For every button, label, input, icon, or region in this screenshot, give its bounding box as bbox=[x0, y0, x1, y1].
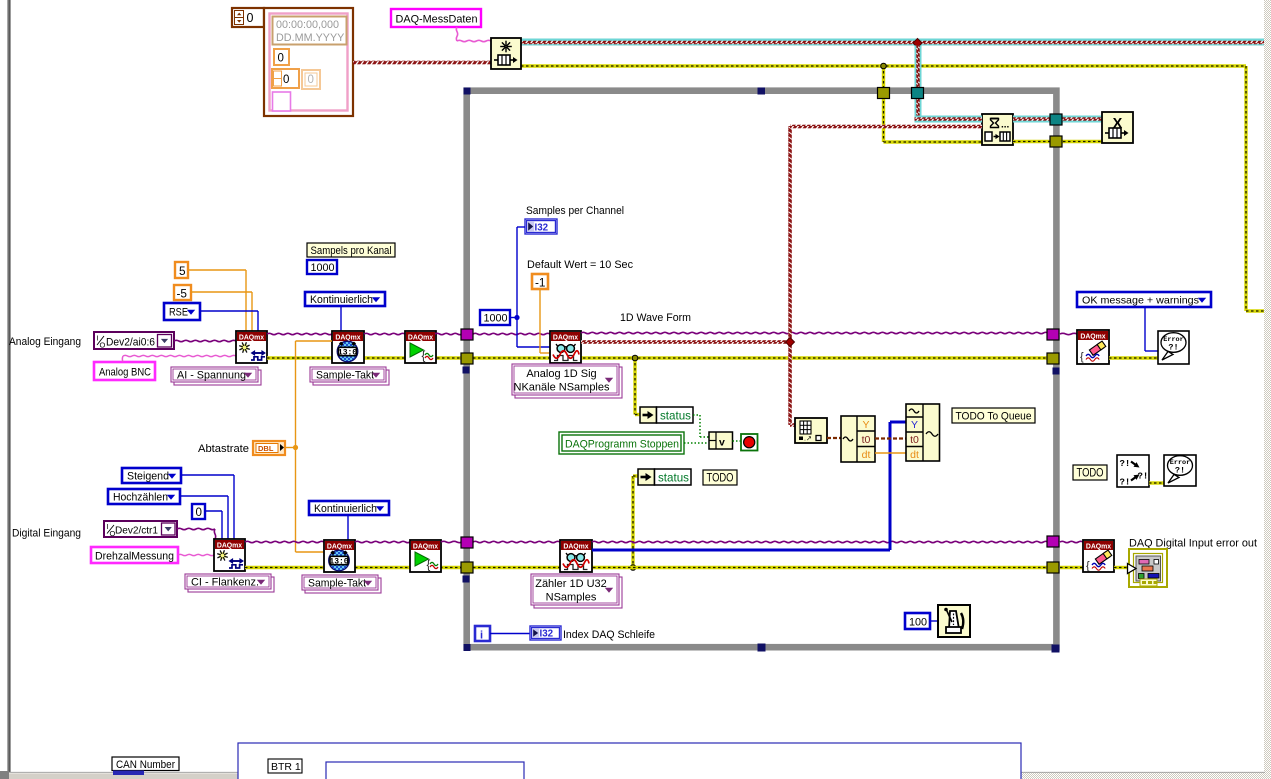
svg-text:Sample-Takt: Sample-Takt bbox=[316, 370, 374, 382]
svg-text:?!: ?! bbox=[1120, 459, 1131, 469]
timestamp constant 00:00:00,000 bbox=[273, 17, 347, 45]
cluster wire drop at x918 bbox=[916, 45, 919, 119]
enum Steigend bbox=[122, 468, 181, 483]
t0 wire bbox=[875, 437, 906, 439]
get waveform components bbox=[841, 416, 875, 462]
bool wire or to stop bbox=[733, 440, 742, 442]
svg-text:Sampels pro Kanal: Sampels pro Kanal bbox=[311, 245, 392, 257]
task wire start to tunnel (analog) bbox=[435, 333, 462, 334]
svg-text:DAQmx: DAQmx bbox=[335, 335, 360, 342]
daqmx read (analog) bbox=[550, 331, 581, 363]
index array function bbox=[795, 418, 827, 443]
io constant Dev2/ctr1 bbox=[104, 521, 177, 538]
enum Analog 1D Sig NKanale NSamples bbox=[512, 364, 622, 398]
left window pane border bbox=[7, 0, 11, 772]
wire i to I32 bbox=[490, 633, 530, 635]
build waveform bbox=[906, 404, 940, 461]
error junction dot digital bbox=[630, 565, 636, 571]
label Index DAQ Schleife bbox=[563, 629, 655, 641]
svg-text:OK message + warnings: OK message + warnings bbox=[1082, 295, 1199, 307]
svg-text:DBL: DBL bbox=[258, 444, 274, 453]
svg-text:i: i bbox=[480, 630, 483, 642]
label Default Wert = 10 Sec bbox=[527, 259, 633, 271]
rate wire to analog timing bbox=[285, 341, 332, 448]
tunnel queue top bbox=[912, 88, 924, 99]
svg-text:CI - Flankenz.: CI - Flankenz. bbox=[191, 577, 259, 589]
vertical scrollbar track bbox=[1264, 0, 1271, 779]
indicator input arrow bbox=[1128, 564, 1137, 574]
error wire obtain queue to right edge bbox=[521, 64, 1246, 67]
unbundle status 1 bbox=[640, 407, 693, 423]
svg-text:DAQmx: DAQmx bbox=[563, 544, 588, 551]
svg-text:dt: dt bbox=[862, 449, 871, 461]
simple error handler (digital) bbox=[1164, 455, 1196, 486]
svg-text:status: status bbox=[658, 472, 689, 485]
obtain queue icon U1 bbox=[491, 38, 521, 69]
error wire merge to dialog bbox=[1149, 481, 1164, 484]
rate wire to digital timing bbox=[296, 448, 325, 553]
svg-text:t0: t0 bbox=[862, 434, 871, 446]
svg-text:00:00:00,000: 00:00:00,000 bbox=[276, 19, 339, 31]
iteration terminal i bbox=[475, 626, 490, 642]
task wire Dev2ctr1 to create bbox=[177, 528, 216, 539]
wire RSE to create bbox=[200, 311, 258, 331]
error branch to status2 (digital) bbox=[633, 476, 638, 567]
junction dot blue bbox=[514, 315, 519, 320]
svg-text:Dev2/ai0:6: Dev2/ai0:6 bbox=[106, 337, 155, 349]
svg-text:0: 0 bbox=[308, 74, 314, 86]
io constant Dev2/ai0:6 bbox=[94, 332, 174, 350]
queue+cluster wire into enqueue (cyan) bbox=[915, 116, 983, 123]
daqmx start (analog) bbox=[405, 331, 436, 363]
svg-text:Analog BNC: Analog BNC bbox=[99, 367, 151, 379]
svg-text:NSamples: NSamples bbox=[546, 592, 597, 604]
svg-text:O: O bbox=[100, 341, 106, 350]
svg-text:Analog 1D Sig: Analog 1D Sig bbox=[526, 368, 596, 380]
svg-text:DAQmx: DAQmx bbox=[327, 544, 352, 551]
handle bottom mid bbox=[758, 644, 766, 652]
wire 0 to create bbox=[205, 511, 222, 539]
svg-text:Kontinuierlich: Kontinuierlich bbox=[310, 294, 373, 306]
svg-text:{: { bbox=[427, 560, 431, 572]
svg-text:0: 0 bbox=[278, 53, 284, 65]
daqmx timing (analog) bbox=[332, 331, 364, 363]
svg-text:?!: ?! bbox=[1120, 478, 1131, 488]
label TODO (loop) bbox=[703, 470, 737, 485]
waveform array wire junction down to index array bbox=[788, 342, 795, 427]
enqueue element icon bbox=[982, 114, 1013, 145]
dbl constant Abtastrate bbox=[253, 441, 285, 455]
svg-text:DAQmx: DAQmx bbox=[413, 544, 438, 551]
label Analog Eingang bbox=[9, 336, 81, 348]
svg-text:Y: Y bbox=[911, 419, 918, 431]
task wire tunnel to clear (digital) bbox=[1060, 541, 1083, 542]
task wire create to timing (digital) bbox=[245, 541, 324, 542]
svg-text:0: 0 bbox=[283, 74, 289, 86]
numeric constant 5 bbox=[175, 262, 188, 278]
numeric 0 in cluster (orange) bbox=[274, 49, 289, 65]
svg-text:TODO To Queue: TODO To Queue bbox=[956, 411, 1032, 423]
numeric constant 1000 (loop) bbox=[480, 310, 510, 325]
svg-text:Zähler 1D U32: Zähler 1D U32 bbox=[535, 578, 607, 590]
svg-text:Sample-Takt: Sample-Takt bbox=[308, 578, 366, 590]
daqmx timing (digital) bbox=[324, 540, 355, 572]
error wire enqueue to release bbox=[1013, 140, 1102, 143]
CAN Number terminal stub bbox=[113, 771, 144, 776]
svg-text:DAQmx: DAQmx bbox=[1080, 334, 1105, 341]
svg-text:1000: 1000 bbox=[311, 262, 335, 274]
svg-text:{: { bbox=[1086, 560, 1090, 572]
svg-text:DAQmx: DAQmx bbox=[1086, 544, 1111, 551]
cluster wire constant to obtain queue bbox=[353, 61, 492, 65]
wire -1 to read timeout bbox=[540, 289, 550, 353]
numeric constant 100 bbox=[905, 613, 930, 629]
daqmx create virtual channel (analog) bbox=[236, 331, 267, 363]
label Analog BNC bbox=[94, 362, 155, 380]
enum Sample-Takt (digital) bbox=[302, 575, 381, 593]
svg-text:?!: ?! bbox=[1138, 472, 1149, 482]
dt wire bbox=[875, 452, 906, 454]
CAN frame inner box bbox=[326, 762, 524, 779]
task wire timing to start (digital) bbox=[355, 541, 410, 542]
svg-text:Hochzählen: Hochzählen bbox=[113, 492, 168, 504]
numeric constant -5 bbox=[174, 285, 191, 301]
handle digital left bbox=[463, 576, 470, 583]
waveform wire index array to get components bbox=[827, 437, 841, 439]
wire 1000 to junction bbox=[510, 317, 517, 319]
svg-text:Analog Eingang: Analog Eingang bbox=[9, 336, 81, 348]
svg-text:Index DAQ Schleife: Index DAQ Schleife bbox=[563, 629, 655, 641]
bool wire stoppen to or bbox=[684, 442, 709, 444]
task wire read to right tunnel (analog) bbox=[581, 332, 1048, 333]
daqmx create virtual channel (digital) bbox=[214, 539, 245, 571]
tunnel error analog left bbox=[461, 353, 473, 364]
svg-text:RSE: RSE bbox=[169, 307, 188, 319]
numeric 0 grayed in cluster bbox=[302, 70, 320, 89]
label DAQ-MessDaten bbox=[391, 9, 481, 27]
svg-text:dt: dt bbox=[910, 449, 919, 461]
svg-text:DD.MM.YYYY: DD.MM.YYYY bbox=[276, 32, 344, 44]
error wire clear to indicator bbox=[1114, 566, 1128, 569]
svg-text:DAQmx: DAQmx bbox=[408, 335, 433, 342]
string wire Analog BNC to create bbox=[122, 355, 236, 362]
tunnel queue dequeue right bbox=[1050, 114, 1062, 125]
svg-text:NKanäle NSamples: NKanäle NSamples bbox=[514, 382, 610, 394]
enum CI - Flankenz. bbox=[185, 574, 274, 592]
task wire start to tunnel (digital) bbox=[441, 541, 462, 542]
handle left mid bbox=[463, 367, 470, 374]
terminal I32 samples per channel bbox=[525, 219, 557, 234]
waveform array wire to enqueue element bbox=[790, 125, 982, 129]
release queue icon bbox=[1102, 112, 1133, 143]
task wire tunnel to read (analog) bbox=[473, 333, 550, 334]
handle bottom left bbox=[464, 644, 471, 651]
svg-text:5: 5 bbox=[179, 264, 186, 278]
label Digital Eingang bbox=[12, 528, 81, 540]
tunnel error top bbox=[878, 88, 890, 99]
loop stop terminal bbox=[741, 434, 758, 451]
svg-text:...: ... bbox=[1001, 120, 1010, 131]
label Abtastrate bbox=[198, 443, 249, 455]
task wire Dev2 to create bbox=[174, 340, 236, 341]
svg-text:BTR 1: BTR 1 bbox=[271, 761, 301, 773]
svg-text:0: 0 bbox=[247, 11, 254, 25]
label Sampels pro Kanal bbox=[307, 243, 395, 257]
enum Kontinuierlich (digital) bbox=[309, 501, 389, 515]
wire Steigend to create bbox=[181, 475, 234, 539]
queue+cluster wire drop at x918 (cyan) bbox=[915, 46, 922, 120]
svg-text:?!: ?! bbox=[1168, 343, 1178, 353]
label TODO (right) bbox=[1073, 465, 1107, 480]
junction diamond at x790 bbox=[786, 338, 795, 347]
svg-text:I: I bbox=[97, 334, 99, 343]
svg-text:-5: -5 bbox=[177, 287, 188, 301]
merge errors function bbox=[1117, 455, 1149, 488]
task wire tunnel to read (digital) bbox=[473, 541, 560, 542]
svg-text:Abtastrate: Abtastrate bbox=[198, 443, 249, 455]
error wire analog row bbox=[267, 356, 461, 359]
svg-text:Steigend: Steigend bbox=[127, 471, 169, 483]
enum Sample-Takt (analog) bbox=[310, 367, 389, 385]
handle top mid bbox=[758, 88, 766, 95]
wire Kontinuierlich to timing (analog) bbox=[340, 306, 342, 331]
string wire DAQ-MessDaten to obtain queue bbox=[456, 27, 491, 42]
error wire junction dot top bbox=[881, 63, 887, 69]
svg-text:13:0: 13:0 bbox=[338, 349, 357, 358]
svg-text:1D Wave Form: 1D Wave Form bbox=[620, 312, 691, 324]
svg-text:0: 0 bbox=[196, 506, 202, 519]
task wire tunnel to clear (analog) bbox=[1060, 333, 1077, 334]
label Samples per Channel bbox=[526, 205, 624, 217]
svg-text:CAN Number: CAN Number bbox=[116, 759, 175, 771]
svg-text:DAQ-MessDaten: DAQ-MessDaten bbox=[396, 14, 478, 26]
waveform array wire read to junction bbox=[581, 340, 790, 344]
label CAN Number bbox=[112, 757, 179, 771]
label BTR 1 bbox=[268, 759, 302, 773]
waveform array wire junction up bbox=[788, 126, 792, 342]
wire 5 to create bbox=[188, 270, 246, 331]
svg-text:DAQmx: DAQmx bbox=[217, 543, 242, 550]
wire -5 to create bbox=[191, 292, 252, 331]
cluster wire top (candy stripe) bbox=[520, 41, 1264, 44]
svg-text:-1: -1 bbox=[535, 276, 546, 290]
svg-text:Y: Y bbox=[862, 419, 869, 431]
enum Hochzaehlen bbox=[108, 489, 180, 504]
svg-text:Samples per Channel: Samples per Channel bbox=[526, 205, 624, 217]
svg-text:Dev2/ctr1: Dev2/ctr1 bbox=[115, 525, 158, 537]
wire OK message to error dialog bbox=[1145, 307, 1158, 351]
tunnel task digital right bbox=[1047, 536, 1059, 547]
svg-text:Default Wert = 10 Sec: Default Wert = 10 Sec bbox=[527, 259, 633, 271]
wire Kontinuierlich to timing (digital) bbox=[347, 515, 349, 540]
error wire clear to dialog (analog) bbox=[1109, 356, 1158, 359]
error wire right-side drop bbox=[1246, 66, 1264, 311]
u32 array wire read to build waveform bbox=[592, 422, 906, 550]
svg-text:DAQmx: DAQmx bbox=[553, 335, 578, 342]
cluster wire into enqueue bbox=[915, 117, 983, 120]
task wire timing to start (analog) bbox=[364, 333, 405, 334]
svg-text:DAQmx: DAQmx bbox=[239, 335, 264, 342]
daqmx clear (analog) bbox=[1077, 330, 1109, 364]
svg-text:13:0: 13:0 bbox=[329, 558, 348, 567]
cluster wire enqueue to release bbox=[1013, 117, 1102, 120]
CAN frame outer box bbox=[238, 743, 1021, 779]
svg-text:v: v bbox=[719, 437, 725, 449]
cluster constant DAQ-MessDaten frame bbox=[264, 8, 353, 116]
numeric constant 0 (digital) bbox=[192, 504, 205, 519]
svg-text:DAQ Digital Input error out: DAQ Digital Input error out bbox=[1129, 538, 1258, 550]
daqmx read (digital) bbox=[560, 540, 592, 572]
svg-text:1000: 1000 bbox=[484, 313, 508, 325]
svg-text:{: { bbox=[422, 351, 426, 363]
svg-text:{: { bbox=[1080, 351, 1084, 363]
string wire DrehzalMessung to create bbox=[178, 554, 214, 555]
queue wire enqueue to release (cyan) bbox=[1013, 116, 1102, 123]
numeric constant 0 (brown) bbox=[232, 8, 264, 27]
enum Zaehler 1D U32 NSamples bbox=[531, 574, 622, 608]
svg-text:status: status bbox=[660, 410, 691, 423]
string constant empty in cluster bbox=[273, 92, 291, 111]
label DAQ Digital Input error out bbox=[1129, 538, 1258, 550]
svg-text:I32: I32 bbox=[535, 223, 549, 234]
tunnel task analog left bbox=[461, 329, 473, 340]
svg-text:TODO: TODO bbox=[1077, 467, 1104, 480]
tunnel error analog right bbox=[1047, 353, 1059, 364]
handle top left bbox=[464, 88, 471, 95]
junction diamond on cluster wire bbox=[913, 39, 922, 48]
svg-text:Kontinuierlich: Kontinuierlich bbox=[314, 503, 377, 515]
task wire create to timing (analog) bbox=[267, 333, 332, 334]
svg-text:t0: t0 bbox=[910, 434, 919, 446]
daqmx clear (digital) bbox=[1083, 540, 1114, 572]
error wire tunnel to read (digital) bbox=[473, 566, 1048, 569]
svg-text:I: I bbox=[107, 522, 109, 531]
enum RSE bbox=[164, 303, 200, 320]
or function bbox=[709, 432, 733, 449]
numeric constant 1000 (analog) bbox=[307, 260, 337, 274]
numeric 0 spinner in cluster bbox=[272, 69, 299, 88]
queue refnum wire top (cyan) bbox=[520, 39, 1264, 46]
svg-text:TODO: TODO bbox=[707, 472, 734, 485]
label DrehzalMessung bbox=[91, 547, 178, 563]
wait until next ms multiple bbox=[938, 605, 970, 637]
error wire tunnel to clear (digital) bbox=[1060, 566, 1083, 569]
svg-text:DAQProgramm Stoppen: DAQProgramm Stoppen bbox=[565, 439, 679, 451]
daqmx start (digital) bbox=[410, 540, 441, 572]
wire I32 and 1000 to read bbox=[517, 227, 550, 347]
bool wire status1 to or bbox=[693, 415, 709, 437]
unbundle status 2 bbox=[638, 469, 691, 485]
handle right mid bbox=[1053, 368, 1060, 375]
label TODO To Queue bbox=[952, 408, 1035, 423]
error branch to status1 bbox=[635, 358, 640, 415]
wire 100 to wait bbox=[930, 620, 938, 622]
error wire digital row bbox=[245, 566, 461, 569]
svg-text:Digital Eingang: Digital Eingang bbox=[12, 528, 81, 540]
numeric constant -1 bbox=[532, 274, 548, 290]
horizontal scrollbar bbox=[0, 771, 1265, 779]
label 1D Wave Form bbox=[620, 312, 691, 324]
tunnel error digital left bbox=[461, 562, 473, 573]
svg-text:DrehzalMessung: DrehzalMessung bbox=[95, 551, 174, 563]
error cluster indicator DAQ Digital Input error out bbox=[1129, 549, 1167, 587]
tunnel task digital left bbox=[461, 537, 473, 548]
handle bottom right bbox=[1052, 645, 1060, 653]
task wire read to right tunnel (digital) bbox=[592, 541, 1048, 542]
conversion I32 index bbox=[530, 626, 561, 640]
svg-text:AI - Spannung: AI - Spannung bbox=[177, 370, 246, 382]
tunnel task analog right bbox=[1047, 329, 1059, 340]
error wire branch down to enqueue bbox=[884, 66, 983, 142]
simple error handler (analog) bbox=[1158, 331, 1189, 364]
error junction dot analog bbox=[632, 355, 638, 361]
svg-text:.↗: .↗ bbox=[804, 436, 812, 443]
wire Hochzaehlen to create bbox=[180, 496, 228, 539]
boolean constant DAQProgramm Stoppen bbox=[559, 432, 684, 454]
svg-text:100: 100 bbox=[909, 617, 927, 629]
tunnel error digital right bbox=[1047, 562, 1059, 573]
enum Kontinuierlich (analog) bbox=[305, 292, 385, 306]
rate wire dot bbox=[293, 445, 298, 450]
enum AI - Spannung bbox=[171, 367, 261, 385]
svg-text:?!: ?! bbox=[1175, 466, 1185, 476]
svg-text:I32: I32 bbox=[540, 629, 554, 640]
tunnel error dequeue right bbox=[1050, 136, 1062, 147]
error wire tunnel to read (analog) bbox=[473, 356, 1048, 359]
enum OK message + warnings bbox=[1077, 292, 1211, 307]
while loop border bbox=[467, 91, 1057, 648]
